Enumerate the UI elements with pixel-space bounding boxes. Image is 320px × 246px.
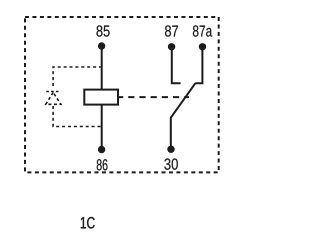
label 87a — [193, 25, 212, 36]
coil K1 — [84, 90, 118, 105]
label 87 — [165, 25, 178, 36]
label 85 — [97, 25, 110, 36]
diode D1 cathode bar (dashed) — [46, 91, 60, 93]
label 1C — [81, 217, 95, 229]
diode D1 triangle (dashed) — [46, 93, 61, 105]
label 86 — [97, 159, 108, 170]
wire pin87 contact — [172, 47, 181, 84]
armature wire from pin30 — [171, 83, 196, 149]
pin 85 terminal dot — [98, 42, 105, 49]
pin 87a terminal dot — [199, 43, 206, 50]
pin 86 terminal dot — [98, 146, 105, 153]
wire pin85 to coil — [101, 46, 103, 90]
label 30 — [164, 158, 178, 169]
mechanical link (dashed) — [119, 96, 189, 98]
suppression box (dashed) — [53, 67, 102, 127]
wire pin87a contact — [195, 47, 202, 84]
pin 87 terminal dot — [168, 43, 175, 50]
relay body outline (dashed) — [25, 17, 219, 172]
pin 30 terminal dot — [167, 146, 174, 153]
wire coil to pin86 — [101, 105, 103, 150]
